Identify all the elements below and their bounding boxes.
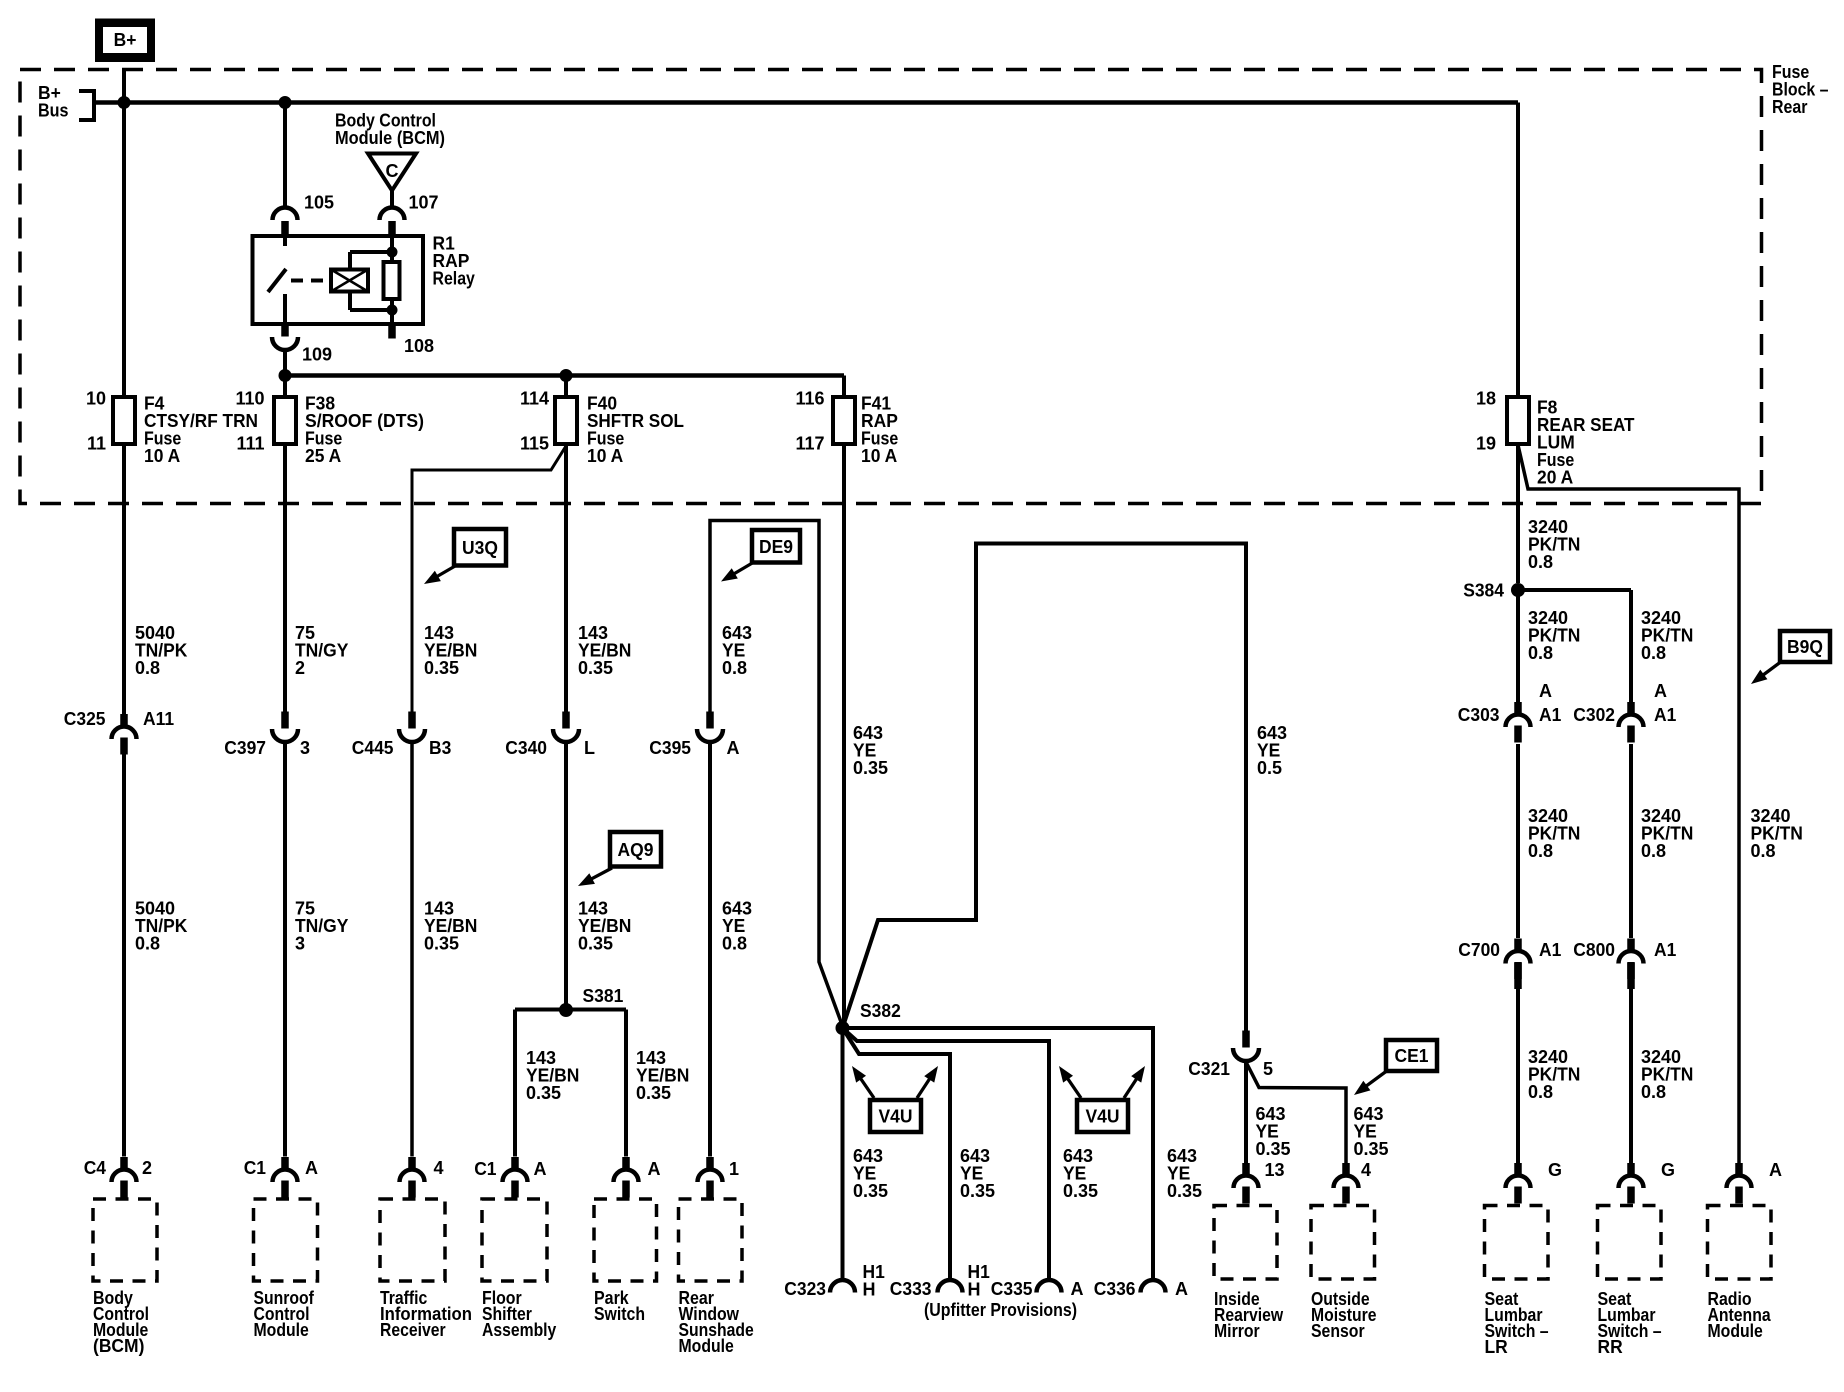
svg-text:0.8: 0.8 xyxy=(135,658,160,678)
svg-text:4: 4 xyxy=(434,1158,444,1178)
svg-text:4: 4 xyxy=(1361,1160,1371,1180)
svg-text:0.8: 0.8 xyxy=(1641,643,1666,663)
svg-text:0.35: 0.35 xyxy=(424,658,459,678)
svg-text:Module: Module xyxy=(254,1320,309,1340)
svg-text:C335: C335 xyxy=(991,1279,1033,1299)
svg-text:0.35: 0.35 xyxy=(853,758,888,778)
svg-text:0.8: 0.8 xyxy=(1528,841,1553,861)
svg-text:2: 2 xyxy=(142,1158,152,1178)
svg-text:Rear: Rear xyxy=(1772,97,1808,117)
svg-text:111: 111 xyxy=(236,434,264,454)
svg-text:A: A xyxy=(648,1159,661,1179)
svg-text:C700: C700 xyxy=(1458,940,1500,960)
svg-text:3: 3 xyxy=(295,934,305,954)
svg-text:(Upfitter Provisions): (Upfitter Provisions) xyxy=(924,1300,1077,1320)
svg-text:10 A: 10 A xyxy=(144,446,180,466)
svg-text:A: A xyxy=(1539,681,1552,701)
svg-text:3: 3 xyxy=(300,738,310,758)
svg-text:S382: S382 xyxy=(860,1001,901,1021)
svg-text:C303: C303 xyxy=(1458,705,1500,725)
svg-text:A: A xyxy=(1071,1279,1084,1299)
svg-text:B+: B+ xyxy=(114,30,137,50)
svg-text:L: L xyxy=(584,738,595,758)
svg-text:0.35: 0.35 xyxy=(853,1181,888,1201)
svg-text:117: 117 xyxy=(795,434,824,454)
svg-text:CE1: CE1 xyxy=(1395,1046,1429,1066)
svg-text:LR: LR xyxy=(1485,1337,1508,1357)
svg-text:C800: C800 xyxy=(1573,940,1615,960)
svg-text:0.35: 0.35 xyxy=(636,1083,671,1103)
svg-text:0.8: 0.8 xyxy=(1641,841,1666,861)
svg-text:AQ9: AQ9 xyxy=(618,840,654,860)
svg-text:C4: C4 xyxy=(84,1158,106,1178)
svg-text:Receiver: Receiver xyxy=(380,1320,446,1340)
svg-text:A: A xyxy=(305,1158,318,1178)
svg-text:Module: Module xyxy=(1708,1321,1763,1341)
svg-text:A: A xyxy=(727,738,740,758)
svg-text:0.35: 0.35 xyxy=(1256,1139,1291,1159)
svg-text:25 A: 25 A xyxy=(305,446,341,466)
svg-text:0.8: 0.8 xyxy=(722,934,747,954)
svg-text:C325: C325 xyxy=(64,709,106,729)
svg-text:114: 114 xyxy=(520,389,549,409)
svg-text:C395: C395 xyxy=(649,738,691,758)
svg-text:C302: C302 xyxy=(1573,705,1615,725)
svg-text:0.8: 0.8 xyxy=(1641,1082,1666,1102)
svg-text:0.35: 0.35 xyxy=(424,934,459,954)
svg-text:G: G xyxy=(1661,1160,1675,1180)
svg-text:C321: C321 xyxy=(1188,1059,1230,1079)
svg-text:A: A xyxy=(1654,681,1667,701)
svg-text:0.35: 0.35 xyxy=(578,658,613,678)
svg-text:C1: C1 xyxy=(474,1159,496,1179)
svg-text:0.8: 0.8 xyxy=(1751,841,1776,861)
svg-text:H: H xyxy=(863,1280,876,1300)
svg-text:Mirror: Mirror xyxy=(1214,1321,1260,1341)
svg-text:A: A xyxy=(1769,1160,1782,1180)
svg-text:A1: A1 xyxy=(1654,705,1676,725)
svg-text:S381: S381 xyxy=(583,986,624,1006)
svg-text:S384: S384 xyxy=(1463,581,1504,601)
svg-text:DE9: DE9 xyxy=(759,537,793,557)
svg-text:Relay: Relay xyxy=(433,269,475,289)
svg-text:C340: C340 xyxy=(505,738,547,758)
svg-text:13: 13 xyxy=(1265,1160,1285,1180)
svg-text:110: 110 xyxy=(235,389,264,409)
svg-text:C333: C333 xyxy=(890,1279,932,1299)
svg-text:11: 11 xyxy=(87,434,106,454)
svg-text:Module (BCM): Module (BCM) xyxy=(335,128,445,148)
svg-text:108: 108 xyxy=(404,336,434,356)
svg-text:0.35: 0.35 xyxy=(526,1083,561,1103)
svg-text:19: 19 xyxy=(1476,434,1496,454)
svg-text:0.35: 0.35 xyxy=(578,934,613,954)
svg-text:A1: A1 xyxy=(1654,940,1676,960)
svg-text:107: 107 xyxy=(409,193,439,213)
svg-text:V4U: V4U xyxy=(1086,1107,1120,1127)
svg-text:Assembly: Assembly xyxy=(482,1320,556,1340)
svg-text:0.35: 0.35 xyxy=(1063,1181,1098,1201)
svg-text:Sensor: Sensor xyxy=(1311,1321,1365,1341)
svg-text:18: 18 xyxy=(1476,389,1496,409)
svg-text:0.8: 0.8 xyxy=(1528,552,1553,572)
svg-text:A: A xyxy=(1175,1279,1188,1299)
svg-text:Bus: Bus xyxy=(38,101,69,121)
svg-text:(BCM): (BCM) xyxy=(93,1336,144,1356)
svg-text:A11: A11 xyxy=(143,709,174,729)
svg-text:G: G xyxy=(1548,1160,1562,1180)
svg-text:105: 105 xyxy=(304,193,334,213)
svg-text:Switch: Switch xyxy=(594,1304,645,1324)
svg-text:0.35: 0.35 xyxy=(1167,1181,1202,1201)
svg-text:C: C xyxy=(386,161,399,181)
svg-text:A1: A1 xyxy=(1539,940,1561,960)
svg-text:C397: C397 xyxy=(224,738,266,758)
svg-text:RR: RR xyxy=(1598,1337,1623,1357)
svg-text:0.8: 0.8 xyxy=(1528,643,1553,663)
svg-text:0.35: 0.35 xyxy=(1354,1139,1389,1159)
svg-text:C445: C445 xyxy=(352,738,394,758)
svg-text:10 A: 10 A xyxy=(587,446,623,466)
svg-text:C336: C336 xyxy=(1094,1279,1136,1299)
svg-text:5: 5 xyxy=(1263,1059,1273,1079)
svg-text:C1: C1 xyxy=(244,1158,266,1178)
svg-text:20 A: 20 A xyxy=(1537,468,1573,488)
svg-text:B9Q: B9Q xyxy=(1787,637,1823,657)
svg-text:0.5: 0.5 xyxy=(1257,758,1282,778)
svg-text:Module: Module xyxy=(679,1336,734,1356)
svg-text:A1: A1 xyxy=(1539,705,1561,725)
svg-text:0.8: 0.8 xyxy=(722,658,747,678)
svg-text:A: A xyxy=(534,1159,547,1179)
svg-text:115: 115 xyxy=(520,434,549,454)
svg-text:109: 109 xyxy=(302,345,332,365)
svg-text:U3Q: U3Q xyxy=(462,538,498,558)
svg-text:116: 116 xyxy=(795,389,824,409)
svg-text:1: 1 xyxy=(729,1159,739,1179)
svg-text:C323: C323 xyxy=(784,1279,826,1299)
svg-text:V4U: V4U xyxy=(879,1107,913,1127)
svg-text:B3: B3 xyxy=(429,738,451,758)
svg-text:H: H xyxy=(968,1280,981,1300)
svg-text:10 A: 10 A xyxy=(861,446,897,466)
svg-text:10: 10 xyxy=(86,389,106,409)
svg-text:0.8: 0.8 xyxy=(1528,1082,1553,1102)
svg-text:0.35: 0.35 xyxy=(960,1181,995,1201)
svg-text:0.8: 0.8 xyxy=(135,934,160,954)
svg-text:2: 2 xyxy=(295,658,305,678)
